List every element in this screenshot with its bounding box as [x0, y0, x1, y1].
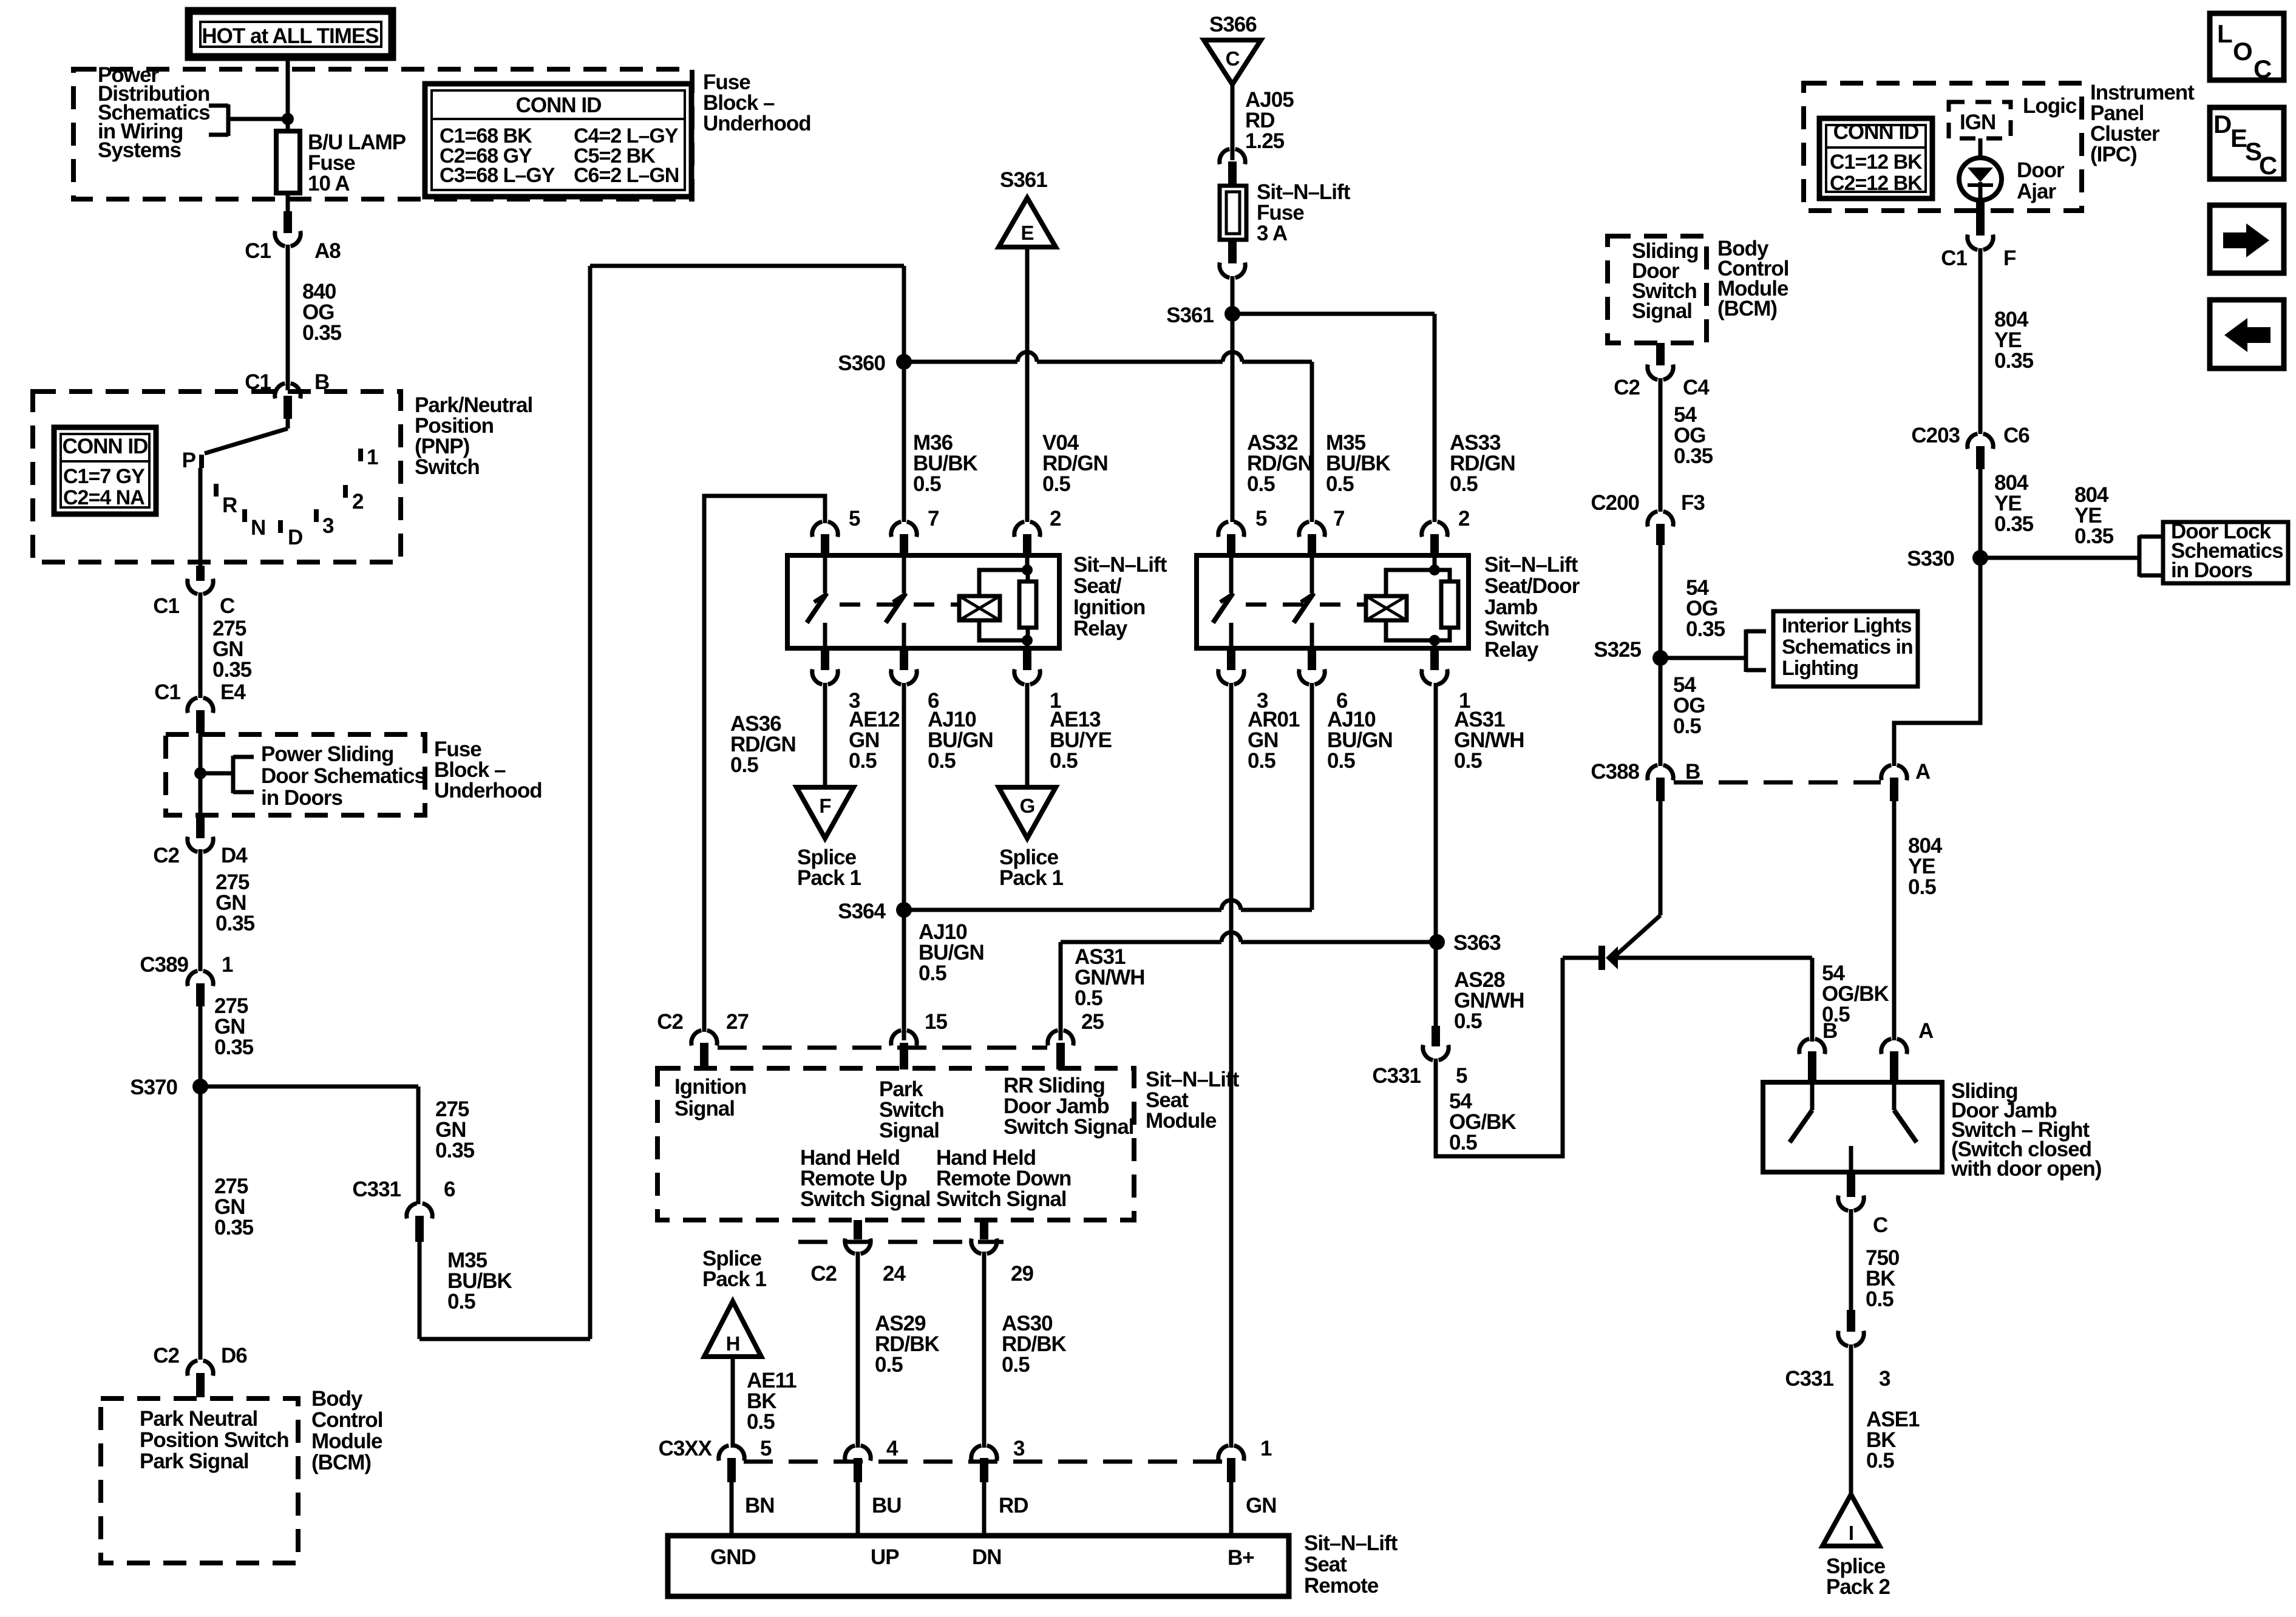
svg-text:C2=12 BK: C2=12 BK — [1830, 172, 1923, 195]
svg-text:0.5: 0.5 — [1326, 472, 1354, 496]
fuse F1 B/U LAMP 10A — [276, 131, 300, 193]
svg-text:Systems: Systems — [98, 138, 182, 162]
svg-text:C2: C2 — [810, 1262, 837, 1286]
svg-text:Logic: Logic — [2023, 94, 2077, 118]
svg-text:Ignition: Ignition — [674, 1075, 746, 1099]
wire IGN to door ajar LED — [1978, 138, 1983, 158]
svg-text:in Doors: in Doors — [2171, 558, 2252, 582]
svg-text:0.5: 0.5 — [1247, 472, 1275, 496]
svg-text:0.35: 0.35 — [1686, 617, 1725, 641]
svg-text:C2: C2 — [657, 1010, 683, 1034]
wire S360 to relay2 pin7 with hops — [904, 360, 1017, 364]
svg-text:Underhood: Underhood — [434, 779, 542, 802]
relay switch contacts — [823, 557, 827, 593]
svg-text:C: C — [2254, 55, 2272, 83]
svg-text:CONN ID: CONN ID — [63, 435, 148, 458]
svg-text:in Doors: in Doors — [261, 786, 342, 810]
fuse F2 Sit-N-Lift 3A — [1220, 186, 1246, 240]
svg-text:B: B — [1685, 760, 1700, 784]
svg-text:Interior Lights: Interior Lights — [1782, 614, 1912, 637]
svg-text:Signal: Signal — [674, 1097, 735, 1120]
splice S364 — [896, 902, 912, 918]
svg-text:0.5: 0.5 — [1075, 986, 1102, 1010]
wire from HOT box to fuse — [286, 57, 290, 132]
svg-text:0.35: 0.35 — [214, 1216, 254, 1239]
bracket door lock — [2138, 535, 2142, 577]
svg-text:A: A — [1918, 1019, 1934, 1043]
wire to S325 — [1659, 545, 1663, 658]
svg-text:0.5: 0.5 — [1248, 749, 1275, 773]
svg-text:R: R — [222, 493, 237, 517]
connector C1 C — [196, 566, 205, 581]
svg-text:C331: C331 — [1785, 1367, 1833, 1391]
wire AS29 RD/BK — [856, 1252, 860, 1448]
svg-text:Seat/: Seat/ — [1073, 574, 1122, 598]
park/neutral position switch dashed box — [33, 392, 401, 562]
svg-text:L: L — [2217, 19, 2232, 48]
svg-text:Power Sliding: Power Sliding — [261, 742, 393, 766]
wire 275 GN to C2 D6 — [199, 1086, 203, 1360]
connector C331 5 — [1432, 1026, 1440, 1046]
door lock schematics box — [2163, 522, 2288, 583]
wire AE11 BK — [731, 1357, 735, 1448]
svg-text:0.5: 0.5 — [1908, 875, 1936, 899]
BCM sliding door switch dashed box — [1608, 236, 1707, 343]
dashed connector line C388 — [1674, 781, 1881, 785]
relay switch contacts — [1229, 557, 1234, 593]
wire 840 OG — [286, 245, 290, 390]
relay coil — [959, 596, 1000, 620]
svg-text:5: 5 — [1255, 507, 1267, 531]
svg-text:2: 2 — [352, 490, 364, 514]
svg-text:0.35: 0.35 — [1674, 444, 1713, 468]
svg-text:0.5: 0.5 — [1673, 714, 1701, 738]
svg-text:Position Switch: Position Switch — [140, 1428, 289, 1452]
svg-text:A: A — [1915, 760, 1931, 784]
wire 54 OG to C200 — [1659, 378, 1663, 512]
svg-text:0.5: 0.5 — [849, 749, 877, 773]
relay box — [787, 555, 1059, 648]
wire AR01 relay2 pin3 down to module pin1 — [1229, 683, 1234, 1448]
svg-text:C1=12 BK: C1=12 BK — [1830, 151, 1923, 174]
svg-text:Pack 2: Pack 2 — [1826, 1575, 1890, 1599]
node junction to power distribution bracket — [282, 113, 294, 125]
svg-text:7: 7 — [1333, 507, 1344, 531]
svg-text:UP: UP — [871, 1545, 899, 1569]
wire AE13 to splice pack G — [1025, 683, 1030, 787]
wire AJ10 relay1 pin6 to S364 — [902, 683, 906, 910]
svg-text:C1=7 GY: C1=7 GY — [63, 465, 145, 488]
svg-text:S363: S363 — [1453, 931, 1501, 955]
relay resistor — [1441, 581, 1458, 628]
svg-text:0.35: 0.35 — [435, 1139, 475, 1162]
svg-text:G: G — [1020, 795, 1035, 817]
wire through PSD fuse block — [199, 727, 203, 816]
splice S363 — [1429, 934, 1445, 950]
svg-text:Signal: Signal — [879, 1119, 939, 1142]
svg-text:2: 2 — [1050, 507, 1061, 531]
svg-text:0.35: 0.35 — [1994, 349, 2034, 373]
svg-text:Module: Module — [311, 1429, 382, 1453]
icon box arrow right — [2210, 205, 2284, 273]
svg-text:S361: S361 — [1000, 168, 1047, 192]
svg-text:6: 6 — [444, 1178, 455, 1201]
wire V04 from E to relay1 pin2 — [1025, 247, 1030, 522]
svg-text:C2: C2 — [1614, 376, 1640, 399]
svg-text:0.35: 0.35 — [214, 1036, 254, 1059]
IGN dashed box — [1949, 102, 2011, 138]
connector C331 3 — [1847, 1310, 1855, 1332]
svg-text:Park Signal: Park Signal — [140, 1449, 249, 1473]
wire S361 to relay2 pin2 — [1232, 312, 1435, 316]
svg-text:3: 3 — [322, 514, 334, 538]
svg-text:0.5: 0.5 — [1050, 749, 1078, 773]
svg-text:Relay: Relay — [1073, 617, 1128, 640]
junction to power sliding door bracket — [194, 767, 206, 779]
wire 804 YE below C388 A — [1892, 801, 1897, 1040]
wire C388 B down — [1659, 801, 1663, 915]
svg-text:0.5: 0.5 — [1454, 749, 1482, 773]
svg-text:0.5: 0.5 — [1449, 1131, 1477, 1154]
svg-text:0.5: 0.5 — [913, 472, 941, 496]
diode on 54 OG/BK line — [1563, 956, 1598, 960]
svg-text:B: B — [1822, 1019, 1837, 1043]
module bottom connector C2 pin 24 — [854, 1220, 862, 1239]
svg-text:10 A: 10 A — [308, 172, 350, 195]
interior lights schematics box — [1773, 611, 1918, 686]
svg-text:Underhood: Underhood — [703, 112, 811, 135]
wire S330 to door lock bracket — [1980, 556, 2139, 560]
splice S330 — [1972, 550, 1988, 566]
svg-text:2: 2 — [1458, 507, 1470, 531]
svg-text:E4: E4 — [220, 680, 246, 704]
svg-text:0.5: 0.5 — [928, 749, 956, 773]
svg-text:Remote: Remote — [1304, 1574, 1379, 1598]
wire AS28 GN/WH — [1434, 942, 1438, 1026]
svg-text:3 A: 3 A — [1257, 222, 1288, 245]
svg-text:15: 15 — [925, 1010, 947, 1034]
svg-text:Seat/Door: Seat/Door — [1484, 574, 1580, 598]
jamb switch internals — [1810, 1085, 1815, 1110]
wire fuse to S361 — [1231, 276, 1235, 314]
svg-text:Pack 1: Pack 1 — [702, 1267, 766, 1291]
wire 54 OG to C388 B — [1659, 658, 1663, 766]
svg-text:0.35: 0.35 — [1994, 512, 2034, 536]
svg-text:S330: S330 — [1907, 547, 1954, 571]
svg-text:GND: GND — [710, 1545, 756, 1569]
sit-n-lift seat remote box — [668, 1536, 1289, 1596]
svg-text:C: C — [2259, 151, 2277, 180]
svg-text:Schematics in: Schematics in — [1782, 636, 1913, 659]
svg-text:0.5: 0.5 — [1042, 472, 1070, 496]
svg-text:C2=4 NA: C2=4 NA — [63, 486, 144, 509]
svg-text:S325: S325 — [1594, 638, 1641, 662]
svg-text:(IPC): (IPC) — [2090, 143, 2137, 166]
svg-text:Signal: Signal — [1632, 299, 1692, 323]
svg-text:C4: C4 — [1683, 376, 1710, 399]
wire AS30 RD/BK — [982, 1252, 987, 1448]
svg-text:O: O — [2233, 37, 2252, 66]
svg-text:D: D — [288, 526, 302, 549]
sliding door jamb switch box — [1763, 1082, 1942, 1172]
wire AJ05 RD — [1231, 84, 1235, 160]
svg-text:N: N — [251, 516, 265, 540]
splice pack triangle I — [1822, 1494, 1880, 1546]
svg-text:Sit–N–Lift: Sit–N–Lift — [1073, 553, 1167, 577]
svg-text:1: 1 — [1260, 1437, 1272, 1460]
fuse block PSD dashed box — [166, 734, 425, 815]
BCM park signal dashed box — [101, 1398, 298, 1563]
wire S325 to interior lights bracket — [1660, 656, 1746, 660]
svg-text:0.35: 0.35 — [2074, 524, 2114, 548]
door ajar indicator symbol — [1959, 158, 2002, 200]
bracket power sliding door — [231, 756, 236, 793]
connector below Sit-N-Lift fuse — [1228, 240, 1237, 263]
svg-text:F: F — [819, 795, 830, 817]
svg-text:C6: C6 — [2003, 424, 2029, 447]
wire M36 to relay1 pin7 — [902, 362, 906, 522]
relay actuating dashed link — [1246, 603, 1366, 607]
relay coil hook wires — [1386, 570, 1450, 596]
wires into seat remote — [730, 1482, 734, 1536]
svg-text:Door Schematics: Door Schematics — [261, 764, 426, 788]
icon box DESC — [2210, 107, 2284, 179]
svg-text:4: 4 — [886, 1437, 898, 1460]
wire 804 YE to C203 — [1978, 248, 1983, 434]
svg-text:1: 1 — [222, 953, 233, 977]
relay top pin connectors — [812, 522, 838, 537]
svg-text:24: 24 — [883, 1262, 906, 1286]
power label HOT at ALL TIMES box — [189, 11, 392, 57]
svg-text:CONN ID: CONN ID — [1833, 120, 1919, 144]
svg-text:D: D — [2213, 110, 2231, 138]
svg-text:C6=2 L–GN: C6=2 L–GN — [574, 164, 679, 187]
connector C1 A8 — [284, 211, 292, 233]
svg-text:S370: S370 — [130, 1076, 177, 1099]
svg-text:C388: C388 — [1591, 760, 1639, 784]
svg-text:0.5: 0.5 — [1866, 1449, 1894, 1473]
svg-text:0.5: 0.5 — [747, 1410, 775, 1434]
splice S370 — [192, 1079, 208, 1094]
svg-text:Relay: Relay — [1484, 638, 1539, 662]
PNP pole wire — [199, 468, 203, 567]
svg-text:Jamb: Jamb — [1484, 595, 1537, 619]
svg-text:with door open): with door open) — [1951, 1157, 2101, 1181]
svg-text:H: H — [726, 1332, 740, 1355]
svg-text:C2: C2 — [153, 844, 179, 867]
wire S364 to relay2 pin6 with hop — [904, 908, 1221, 912]
svg-text:29: 29 — [1011, 1262, 1033, 1286]
connector jamb C — [1847, 1172, 1855, 1197]
wire S361 down to relay2 pin5 — [1231, 314, 1235, 522]
PNP position contacts R N D 3 2 1 — [214, 484, 219, 497]
svg-text:0.5: 0.5 — [919, 961, 946, 985]
module bottom connector pin 29 — [980, 1220, 988, 1239]
splice pack triangle F — [796, 787, 854, 838]
svg-text:Control: Control — [311, 1408, 382, 1432]
wire AS36 from module pin27 to relay1 pin5 — [704, 496, 825, 1032]
conn id table IPC — [1819, 118, 1932, 198]
svg-text:0.5: 0.5 — [1450, 472, 1478, 496]
svg-text:Switch Signal: Switch Signal — [1004, 1115, 1134, 1139]
svg-text:C: C — [1226, 47, 1240, 70]
svg-text:Sit–N–Lift: Sit–N–Lift — [1304, 1531, 1398, 1555]
svg-text:5: 5 — [1456, 1064, 1467, 1088]
wire AE12 to splice pack F — [823, 683, 827, 787]
svg-text:Switch: Switch — [415, 455, 480, 479]
PNP switch wiper and P contact — [286, 413, 290, 429]
svg-text:0.5: 0.5 — [1454, 1009, 1482, 1033]
svg-text:S361: S361 — [1166, 303, 1214, 327]
splice S360 — [896, 354, 912, 370]
relay top pin connectors — [1218, 522, 1244, 537]
svg-text:Park Neutral: Park Neutral — [140, 1407, 257, 1431]
relay actuating dashed link — [840, 603, 959, 607]
relay bottom pin connectors — [1227, 648, 1235, 670]
svg-text:3: 3 — [1879, 1367, 1890, 1391]
icon box arrow left — [2210, 300, 2284, 368]
svg-text:D4: D4 — [221, 844, 248, 867]
svg-text:CONN ID: CONN ID — [516, 93, 602, 117]
svg-text:Switch: Switch — [1484, 617, 1549, 640]
svg-text:F: F — [2003, 246, 2016, 270]
svg-text:0.5: 0.5 — [730, 753, 758, 777]
svg-text:S360: S360 — [838, 351, 885, 375]
wire M35 BU/BK loop to S360 — [418, 1242, 422, 1339]
wire 275 GN to S370 — [199, 1006, 203, 1086]
wire ASE1 BK — [1849, 1344, 1853, 1494]
svg-text:F3: F3 — [1681, 491, 1705, 515]
svg-text:1.25: 1.25 — [1245, 129, 1285, 153]
wire 750 BK — [1849, 1209, 1853, 1310]
svg-text:3: 3 — [1013, 1437, 1025, 1460]
svg-text:C: C — [1873, 1213, 1888, 1237]
svg-text:C2: C2 — [153, 1344, 179, 1368]
svg-text:C331: C331 — [352, 1178, 401, 1201]
icon box LOC — [2210, 13, 2284, 80]
svg-text:Switch Signal: Switch Signal — [800, 1187, 931, 1211]
svg-text:Module: Module — [1146, 1109, 1217, 1133]
svg-text:A8: A8 — [314, 239, 341, 263]
svg-text:RD: RD — [999, 1494, 1028, 1517]
wire S370 branch to C331-6 — [200, 1085, 418, 1089]
svg-text:C3XX: C3XX — [659, 1437, 713, 1460]
conn id table PNP switch — [54, 427, 156, 514]
wire S363 to module pin25 with hop — [1241, 940, 1436, 944]
svg-text:27: 27 — [726, 1010, 749, 1034]
wire 275 GN to E4 — [199, 592, 203, 698]
svg-text:C1: C1 — [153, 594, 179, 618]
svg-text:D6: D6 — [221, 1344, 247, 1368]
svg-text:0.5: 0.5 — [1327, 749, 1355, 773]
diagonal wire from C388-B to diode — [1613, 915, 1660, 958]
splice pack triangle G — [999, 787, 1056, 838]
svg-text:B+: B+ — [1228, 1546, 1254, 1570]
splice S361 — [1224, 306, 1240, 322]
svg-text:0.5: 0.5 — [1002, 1353, 1030, 1377]
svg-text:E: E — [1021, 222, 1033, 244]
svg-text:C1: C1 — [245, 239, 271, 263]
sit-n-lift seat module dashed box — [657, 1068, 1134, 1220]
svg-text:Sit–N–Lift: Sit–N–Lift — [1484, 553, 1578, 577]
svg-text:5: 5 — [849, 507, 860, 531]
instrument panel cluster dashed box — [1804, 83, 2082, 211]
wire 54 OG/BK jog to diode — [1436, 958, 1563, 1156]
svg-text:Lighting: Lighting — [1782, 657, 1858, 680]
bracket interior lights — [1744, 629, 1748, 672]
svg-text:0.35: 0.35 — [302, 321, 342, 345]
wire 275 GN to C389 — [199, 849, 203, 971]
conn id table fuse block underhood — [425, 84, 691, 197]
svg-text:C1: C1 — [154, 680, 180, 704]
svg-text:GN: GN — [1246, 1494, 1277, 1517]
svg-text:P: P — [182, 449, 196, 472]
connector C2 C4 — [1656, 343, 1665, 365]
svg-text:C200: C200 — [1591, 491, 1639, 515]
connector above Sit-N-Lift fuse — [1220, 149, 1245, 164]
svg-text:Ajar: Ajar — [2017, 180, 2056, 203]
svg-text:BN: BN — [745, 1494, 775, 1517]
svg-text:Switch Signal: Switch Signal — [936, 1187, 1067, 1211]
relay coil hook wires — [979, 570, 1028, 596]
svg-text:DN: DN — [972, 1545, 1002, 1569]
relay coil — [1366, 596, 1407, 620]
svg-text:Pack 1: Pack 1 — [797, 866, 861, 890]
svg-text:I: I — [1849, 1522, 1853, 1544]
svg-text:C3=68 L–GY: C3=68 L–GY — [440, 164, 555, 187]
svg-text:C: C — [220, 594, 235, 618]
svg-text:0.5: 0.5 — [875, 1353, 903, 1377]
wire AS31 relay2 pin1 to S363 — [1434, 683, 1438, 942]
svg-text:Pack 1: Pack 1 — [999, 866, 1063, 890]
svg-text:0.5: 0.5 — [447, 1290, 475, 1314]
svg-text:HOT at ALL TIMES: HOT at ALL TIMES — [202, 24, 378, 48]
splice S325 — [1652, 650, 1668, 666]
svg-text:5: 5 — [760, 1437, 772, 1460]
svg-text:S366: S366 — [1209, 13, 1257, 36]
svg-text:S364: S364 — [838, 900, 886, 923]
svg-text:Seat: Seat — [1304, 1553, 1347, 1576]
svg-text:C389: C389 — [140, 953, 188, 977]
wire 804 YE from S330 jog to A — [1894, 561, 1980, 766]
wire S364 down to module pin15 — [902, 910, 906, 1040]
svg-text:0.35: 0.35 — [216, 912, 255, 935]
wire 804 YE to S330 — [1978, 469, 1983, 558]
connector C2 D4 — [196, 815, 205, 838]
svg-text:Door: Door — [2017, 158, 2065, 182]
fuse block underhood dashed box — [73, 69, 692, 199]
relay resistor — [1019, 581, 1036, 628]
svg-text:1: 1 — [367, 446, 378, 469]
svg-text:C331: C331 — [1372, 1064, 1421, 1088]
svg-text:(BCM): (BCM) — [1717, 297, 1777, 320]
bracket for power distribution note — [226, 104, 231, 136]
svg-text:IGN: IGN — [1960, 110, 1995, 134]
svg-text:E: E — [2230, 124, 2247, 152]
svg-text:C203: C203 — [1911, 424, 1960, 447]
svg-text:0.5: 0.5 — [1866, 1287, 1894, 1311]
relay bottom pin connectors — [821, 648, 829, 670]
svg-text:C1: C1 — [1941, 246, 1967, 270]
svg-text:Ignition: Ignition — [1073, 595, 1145, 619]
svg-text:(BCM): (BCM) — [311, 1451, 371, 1474]
relay box — [1197, 555, 1469, 648]
svg-text:7: 7 — [928, 507, 939, 531]
wire down to jamb switch B — [1810, 958, 1815, 1042]
connector C1 F — [1976, 200, 1985, 236]
svg-text:Body: Body — [311, 1387, 363, 1411]
svg-text:25: 25 — [1081, 1010, 1104, 1034]
